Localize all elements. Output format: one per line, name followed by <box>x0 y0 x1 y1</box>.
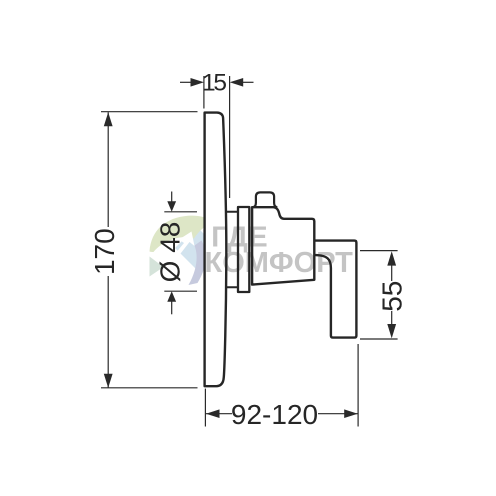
dim 170 ext bottom <box>101 387 198 389</box>
dim 55 ext bottom <box>360 338 398 340</box>
dim d48 bottom tick <box>164 290 197 292</box>
arrow d48 down <box>167 201 176 212</box>
dim 15 lines <box>180 81 192 83</box>
dim 92-120 ext left <box>204 389 206 427</box>
arrow 55 down <box>387 324 396 338</box>
svg-text:Ø 48: Ø 48 <box>154 222 185 283</box>
dim 55 line top <box>391 265 393 281</box>
svg-text:15: 15 <box>202 70 226 97</box>
lavender stroke <box>189 241 206 286</box>
sleeve <box>238 207 249 292</box>
dim 55 ext top <box>360 250 398 252</box>
white numeral band <box>154 232 195 280</box>
dim 170 line <box>107 112 109 227</box>
arrow 15 right <box>230 78 244 87</box>
dim 92-120 ext right <box>357 344 359 427</box>
neck top line <box>227 211 238 213</box>
dim d48 top leader <box>171 192 173 203</box>
watermark logo icon <box>150 216 220 285</box>
escutcheon plate <box>205 113 227 387</box>
fixture outlines <box>205 113 357 387</box>
escutcheon plate fill <box>205 113 227 387</box>
diamond blue <box>175 227 219 271</box>
arrow 170 up <box>104 112 113 126</box>
neck bottom line <box>227 286 238 288</box>
dim 15 ext right <box>229 76 231 198</box>
lever fill <box>315 241 357 338</box>
dome cap <box>254 192 277 207</box>
white fills of the fixture (clip watermark icon) <box>205 113 357 387</box>
svg-text:55: 55 <box>376 281 407 312</box>
svg-text:170: 170 <box>89 228 120 275</box>
arrow 170 down <box>104 374 113 388</box>
dim d48 top tick <box>164 211 197 213</box>
dim 170 ext top <box>101 111 198 113</box>
leaf green <box>150 216 215 252</box>
sleeve fill <box>238 207 249 292</box>
dome fill <box>254 192 277 207</box>
arrow d48 up <box>167 291 176 302</box>
dim 15 ext left <box>203 76 205 109</box>
dimensions <box>101 76 398 427</box>
arrow 92-120 right <box>344 409 358 418</box>
dim 92-120 line right <box>318 413 358 415</box>
dim 92-120 line left <box>206 413 232 415</box>
cartridge body <box>252 207 314 284</box>
arrow 92-120 left <box>206 409 220 418</box>
svg-text:92-120: 92-120 <box>231 399 318 430</box>
dim 55 line bottom <box>391 311 393 325</box>
handle lever <box>315 241 357 338</box>
teal triangle <box>150 257 164 277</box>
arrow 15 left <box>191 78 205 87</box>
body fill <box>252 207 314 284</box>
dim d48 bottom leader <box>171 301 173 314</box>
arrow 55 up <box>387 251 396 265</box>
